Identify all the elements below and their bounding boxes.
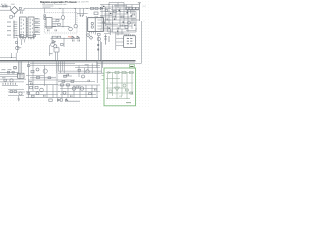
wire left edge A [0, 74, 18, 76]
left block label 1 [2, 68, 6, 71]
resistor R866 [32, 95, 35, 97]
resistor R878 [71, 81, 74, 83]
caps secondary [106, 16, 123, 27]
primary vertical wire [86, 16, 88, 61]
crease echo [0, 61, 135, 63]
extra mesh verticals low [111, 29, 123, 36]
cap ticks mid cluster [44, 95, 46, 97]
wire Q804 up [75, 8, 77, 24]
resistor R876 [48, 77, 51, 79]
secondary mesh horizontal wires [100, 5, 139, 33]
wire R812 to C810 [24, 35, 33, 37]
yoke inner marks [127, 38, 133, 44]
relay drops [56, 52, 58, 61]
cap ticks cluster [73, 40, 80, 42]
resistor R875 [89, 93, 92, 95]
diode D813 [72, 36, 74, 38]
gray channel above green box [97, 61, 142, 68]
transistor Q825 [80, 87, 83, 90]
T801 core line [94, 18, 96, 32]
bus line D [58, 72, 104, 74]
connector pin stubs [14, 22, 17, 37]
IC805 vertical sync [18, 73, 24, 78]
green box label text [126, 101, 131, 104]
wire rail stub down at module [44, 8, 46, 12]
fuse F801 [3, 5, 5, 7]
cap ticks bottom [71, 89, 97, 97]
filter L801 [5, 5, 7, 7]
wire bottom mid C [58, 90, 100, 92]
resistor R867 [60, 99, 62, 101]
resistor chain R841 [126, 7, 129, 10]
vertical wire left of relay [49, 45, 51, 56]
module input resistor Rb [44, 18, 46, 20]
wire IC803 to Q802 [52, 19, 61, 24]
resistor R865 [27, 92, 30, 94]
wire module to transformer [77, 13, 88, 15]
transistor Q821 [19, 92, 22, 95]
wire bridge output [18, 8, 24, 10]
svg-text:OUT: OUT [143, 6, 146, 8]
wire to D821 [67, 98, 80, 102]
cap C850 [14, 67, 16, 69]
bus label text [85, 63, 89, 66]
wire Q802 down [62, 19, 64, 26]
node dot 2 [74, 8, 75, 9]
cap C832 [103, 22, 105, 24]
wire bottom mid E [58, 97, 98, 99]
IC805 inner mark [19, 75, 23, 77]
vert drop left A [18, 61, 20, 75]
resistor R855 [10, 91, 13, 93]
secondary mesh extra lower wires [100, 31, 130, 34]
green verticals [108, 73, 133, 100]
resistor R903 [130, 71, 134, 73]
transistor Q822 [43, 69, 47, 73]
svg-text:D801: D801 [11, 4, 15, 6]
small parts mid right [104, 35, 109, 45]
resistor R853 [12, 71, 14, 73]
transistor Q824 [72, 87, 75, 90]
wire mid E [26, 75, 44, 77]
wire C810 down [33, 37, 35, 39]
transistor Q811 [97, 37, 100, 40]
cap ticks mid left [31, 83, 33, 85]
resistor R863 [35, 86, 38, 89]
green horizontals [106, 79, 133, 99]
bus line A [30, 62, 75, 64]
ground [18, 99, 21, 101]
resistor R870 [61, 84, 64, 86]
cap ticks green [120, 96, 122, 98]
wire below ICs [16, 35, 20, 37]
secondary mesh extra top wire [109, 2, 124, 4]
wire bottom mid D [60, 94, 96, 96]
mesh junction dots [102, 4, 137, 30]
stub bus dots [11, 57, 12, 58]
wire left edge E [0, 76, 18, 78]
IC bottom drops [22, 39, 25, 45]
resistor R864 [49, 99, 52, 101]
module input resistor Ra [44, 15, 46, 17]
wire to yoke box [116, 32, 124, 50]
Q801 base stub [17, 47, 21, 49]
vertical branch wire [16, 38, 17, 61]
bus line C [58, 70, 102, 72]
node dot 3 [86, 8, 87, 9]
resistor chain R844 [136, 7, 139, 10]
right vertical bus [140, 21, 142, 64]
cap C820 [81, 15, 83, 17]
diode D816 [89, 36, 92, 39]
wire bridge bottom [12, 14, 14, 17]
resistor R821 [56, 20, 59, 22]
yoke pins top ticks [125, 34, 134, 35]
wire bottom mid A [58, 84, 100, 86]
transistor Q802 [61, 16, 65, 20]
chopper transformer T801 [88, 18, 104, 32]
transistor Q805 [51, 43, 55, 47]
vert drop left B [19, 61, 21, 79]
IC inner text [21, 19, 33, 37]
chain lead ticks [127, 10, 134, 14]
resistor R812 [20, 34, 23, 36]
resistor R871 [67, 84, 70, 86]
resistor R860 [31, 70, 34, 72]
cap C806 [10, 16, 13, 19]
vert mid E [47, 85, 53, 98]
vert bottom mid [62, 85, 97, 98]
wire cluster vertical [52, 36, 64, 47]
stub bus left [0, 53, 16, 58]
left block label 3 [2, 76, 6, 79]
rail diode D805 [100, 7, 102, 9]
resistor R822 [58, 24, 61, 26]
transistor Q901 [123, 84, 126, 87]
T801 winding circles [91, 22, 93, 24]
resistor R832 [57, 36, 60, 38]
resistor R847 [121, 16, 124, 18]
svg-text:AC 110: AC 110 [1, 3, 7, 6]
cap C810 [33, 34, 36, 36]
wire bus F3 [58, 81, 95, 83]
resistor R873 [78, 69, 81, 71]
svg-text:T801: T801 [95, 16, 99, 18]
transistor Q823 [40, 88, 44, 92]
wire mid J [26, 97, 60, 99]
diode D821 [66, 99, 68, 101]
resistor R845 [125, 25, 128, 28]
cap ticks bus [67, 74, 69, 76]
cap C807 [19, 7, 21, 9]
wire cluster [51, 37, 81, 39]
wire mid F [28, 79, 75, 81]
transistor Q827 [36, 68, 39, 71]
vert drop left C [21, 61, 23, 73]
vert drop mid B [32, 61, 34, 92]
T801 bottom pins [90, 31, 96, 34]
cap ticks right column [97, 44, 99, 51]
resistor R848 [105, 10, 108, 12]
transistor Q828 [82, 75, 85, 78]
secondary mesh vertical wires [102, 3, 136, 33]
T801 winding circle 2 [91, 26, 93, 28]
wire left edge D [2, 85, 18, 87]
module caps ticks [48, 30, 57, 32]
transistor Q826 [36, 92, 39, 95]
cluster below module: resistor R831 [52, 36, 56, 38]
pin labels right [35, 18, 38, 32]
Q802 drop wire [62, 8, 64, 15]
connector CN801 [13, 21, 15, 39]
diode D815 [86, 33, 89, 36]
op-amp triangle [115, 87, 120, 91]
resistor R856 [14, 91, 17, 93]
bus short wire E [64, 75, 72, 77]
resistor R833 [61, 44, 64, 46]
wire AC lower [0, 9, 11, 11]
diode D901 [108, 72, 110, 74]
transistor Q830 [63, 91, 66, 94]
resistor R901 [115, 71, 119, 73]
vert drop mid A [28, 61, 30, 98]
diode D812 [53, 41, 55, 44]
transistor Q806 [54, 45, 57, 48]
pins between ICs [26, 19, 28, 36]
T801 secondary marks [98, 20, 102, 29]
secondary mesh fill wires [100, 3, 136, 33]
lower-left wires [8, 90, 25, 96]
standby module dashed box [45, 13, 78, 34]
legend row 2 [43, 6, 51, 9]
mesh component blobs [103, 6, 135, 32]
svg-text:fonte chaveada / horizontal sa: fonte chaveada / horizontal saida [42, 3, 67, 6]
yoke connector box [124, 36, 136, 48]
wire mid G [26, 84, 58, 86]
green box left stubs [102, 76, 105, 80]
pins right of IC802 [34, 19, 40, 34]
rail resistor R807 [95, 7, 98, 9]
wire mid H [26, 90, 60, 92]
resistor R852 [7, 71, 9, 73]
bus line B [30, 66, 100, 68]
resistor R846 [114, 11, 117, 13]
green box top wire [106, 72, 135, 74]
resistor R872 [64, 75, 67, 77]
wire mid F2 [30, 77, 56, 79]
resistor R859 [27, 65, 29, 67]
resistor R907 [130, 92, 133, 94]
antenna stub [138, 3, 141, 21]
main B+ rail wire [24, 7, 111, 9]
wire AC join [10, 6, 12, 10]
resistor chain R843 [133, 7, 136, 10]
resistor R849 [98, 33, 101, 35]
green label text [130, 66, 133, 67]
resistor chain R842 [129, 7, 132, 10]
snubber box [94, 12, 98, 15]
IC801 [20, 17, 27, 38]
transistor Q801 [16, 46, 19, 49]
cluster junction dot [64, 38, 65, 39]
legend row 1 [43, 5, 54, 8]
vert drop mid D [56, 63, 58, 98]
cap C831 [133, 14, 135, 16]
vertical into green area [101, 42, 103, 73]
cap row ticks [3, 83, 16, 85]
wire left edge C [0, 81, 24, 83]
transistor Q803 [69, 27, 73, 31]
connector pin circles [13, 21, 14, 35]
bridge rectifier D801 [11, 7, 19, 14]
resistor R902 [122, 71, 126, 73]
resistor R814 [16, 42, 18, 44]
resistor R874 [76, 86, 79, 88]
left block label 2 [8, 68, 12, 71]
cap C805 [21, 11, 23, 13]
IC803 pins [45, 19, 57, 26]
rail resistor R806 [91, 7, 94, 9]
wire to ground [18, 96, 20, 100]
transistor Q810 [128, 21, 131, 24]
dashed wire above yoke [112, 32, 124, 34]
mid left label [29, 80, 33, 83]
vertical right of center [97, 36, 99, 61]
transistor Q804 [74, 25, 77, 28]
wire top of left block [0, 71, 19, 73]
node dot Q803 [69, 26, 70, 27]
relay box RL801 [54, 48, 59, 52]
vertical drop to crease right [100, 41, 102, 61]
wire left edge B [0, 78, 26, 80]
resistor R861 [37, 76, 40, 78]
resistor R905 [109, 90, 112, 92]
transistor Q820 [10, 79, 13, 82]
green label tab [129, 65, 134, 68]
transistor Q829 [86, 70, 89, 73]
bus taps group1 [57, 61, 64, 73]
IC803 regulator [46, 18, 52, 28]
wire mid module [45, 26, 70, 28]
relay label [49, 52, 53, 55]
wire AC top [0, 5, 11, 7]
resistor R862 [30, 86, 33, 89]
svg-text:2: 2 [144, 21, 145, 23]
svg-text:mod. 2021 FS: mod. 2021 FS [76, 2, 89, 4]
IC bottom pin ticks [21, 38, 34, 40]
resistor R851 [4, 79, 7, 81]
wire bottom mid B [60, 88, 97, 90]
diode D820 [58, 99, 60, 101]
connector labels [7, 22, 11, 36]
vert drop mid C [44, 65, 46, 86]
crease dark line [0, 60, 136, 62]
wires T801 right [103, 20, 111, 28]
resistor R906 [125, 89, 128, 91]
vertical drop to module [80, 8, 84, 16]
bus taps group2 [79, 62, 97, 83]
cap ticks F3 [88, 80, 90, 82]
node dot 1 [59, 8, 60, 9]
IC802 [28, 17, 34, 38]
module junction dot [63, 26, 64, 27]
green subcircuit box [104, 68, 136, 106]
cap C830 [117, 28, 119, 30]
wire mid I [28, 94, 58, 96]
resistor R877 [62, 81, 65, 83]
diode D814 [77, 36, 79, 38]
